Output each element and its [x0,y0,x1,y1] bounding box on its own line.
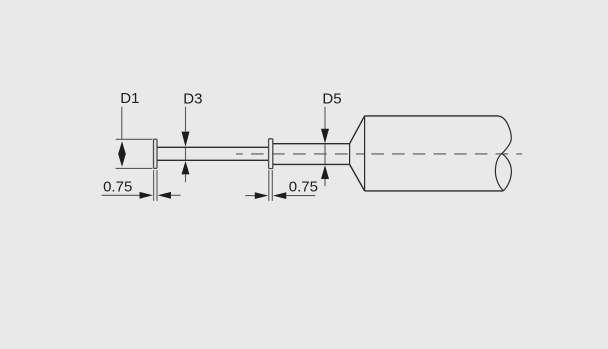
neck shaft D3 top edge [157,146,268,148]
dimension 0.75 left arrowhead pointing right [140,192,153,199]
tool tip flange bar1 [154,139,158,168]
dimension D5 leader line [324,107,326,129]
dimension 0.75 right arrowhead pointing right [255,192,268,199]
taper top line [350,116,365,144]
taper start edge [349,144,351,165]
svg-text:D5: D5 [322,90,341,107]
dimension 0.75 left extension line a [153,170,155,201]
dimension D5 top arrowhead [321,129,329,144]
dimension 0.75 left arrowhead pointing left [158,192,171,199]
dimension D1 bottom extension line [116,167,153,169]
centerline neck segment [236,153,365,155]
dimension 0.75 right extension line b [271,170,273,201]
dimension 0.75 left dimension line left segment [102,194,140,196]
shank front face edge [364,116,366,191]
dimension D5 bottom tail line [324,179,326,186]
dimension 0.75 right extension line a [268,170,270,201]
shank break lens right arc [502,153,512,190]
neck shaft D5 top edge [273,143,350,145]
dimension D3 bottom tail line [185,174,187,182]
dimension D1 top extension line [116,138,153,140]
svg-text:D1: D1 [120,90,139,107]
dimension D1 double arrowhead diamond [118,141,126,167]
centerline shank segment [371,153,522,155]
svg-text:0.75: 0.75 [103,179,132,196]
dimension D3 top arrowhead [182,132,190,147]
dimension D3 line across shaft [185,147,187,160]
shank top edge [365,115,498,117]
taper bottom line [350,164,365,191]
dimension 0.75 left extension line b [156,170,158,201]
dimension D3 bottom arrowhead [182,161,190,174]
dimension D5 line across shaft [324,144,326,165]
dimension 0.75 right dimension line left segment [245,195,255,197]
neck shaft D3 bottom edge [157,159,268,161]
svg-text:0.75: 0.75 [289,179,318,196]
neck shaft D5 bottom edge [273,163,350,165]
shank break S-curve [495,116,511,191]
flange bar2 [269,139,273,169]
shank bottom edge [365,190,504,192]
dimension D1 leader line [121,107,123,140]
dimension D5 bottom arrowhead [321,165,329,179]
dimension D3 leader line [185,107,187,132]
dimension 0.75 right arrowhead pointing left [273,192,286,199]
dimension 0.75 right dimension line right segment [286,195,315,197]
dimension 0.75 left dimension line right segment [171,194,181,196]
svg-text:D3: D3 [183,90,202,107]
